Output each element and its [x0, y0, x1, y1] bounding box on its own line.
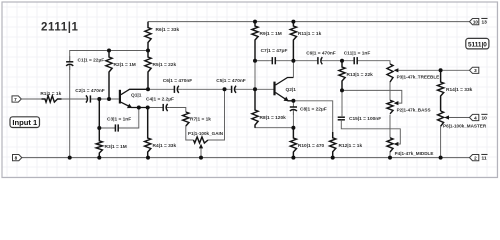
- wire bass wiper feed from R13 node: [342, 90, 402, 103]
- node interstage/R9 junction: [253, 87, 257, 91]
- svg-text:R1|1 = 1k: R1|1 = 1k: [40, 91, 61, 97]
- transistor Q2|1: [273, 82, 275, 96]
- wire top-left (C1 to R6 column): [70, 51, 148, 62]
- svg-text:P2|1-47k_BASS: P2|1-47k_BASS: [397, 108, 431, 113]
- potentiometer P6|1 100k MASTER: [438, 111, 444, 126]
- potentiometer P2|1 47k BASS: [387, 100, 393, 114]
- svg-text:C7|1 = 47pF: C7|1 = 47pF: [261, 48, 288, 54]
- connector tag 4 (master out): [470, 114, 479, 120]
- svg-text:2: 2: [474, 155, 477, 160]
- node ground/P1 wiper: [199, 156, 203, 160]
- wire P1 left terminal: [186, 126, 194, 140]
- svg-text:R4|1 = 33k: R4|1 = 33k: [153, 143, 177, 149]
- node input/R2 junction: [107, 97, 111, 101]
- resistor R10|1 470: [290, 128, 296, 158]
- svg-text:C2|1 = 470nF: C2|1 = 470nF: [75, 88, 105, 94]
- wire P1 right terminal to interstage node: [208, 89, 225, 140]
- resistor R11|1 1k: [290, 22, 296, 61]
- resistor R13|1 22k: [339, 61, 345, 91]
- node C3/R3 junction: [97, 126, 101, 130]
- capacitor C4|1 2.2uF: [160, 107, 170, 109]
- capacitor C11|1 1nF: [352, 60, 362, 62]
- svg-text:7: 7: [14, 97, 17, 102]
- wire master wiper to tag 4: [446, 117, 470, 119]
- wire treble wiper to tag 3: [399, 69, 470, 71]
- svg-text:C11|1 = 1nF: C11|1 = 1nF: [344, 51, 371, 57]
- capacitor C8|1 22uF (emitter bypass): [292, 103, 294, 115]
- wire Q1 emitter line: [132, 107, 161, 109]
- capacitor C2|1 470nF (input coupling): [84, 98, 99, 100]
- wire R8 bend to C8 column: [254, 89, 256, 110]
- svg-text:R11|1 = 1k: R11|1 = 1k: [298, 31, 322, 37]
- svg-text:R12|1 = 1k: R12|1 = 1k: [339, 143, 363, 149]
- node emitter/R4 junction: [146, 106, 150, 110]
- capacitor C15|1 100nF: [338, 116, 345, 118]
- capacitor C5|1 470nF: [228, 88, 241, 90]
- wire tone stack pot column: [389, 82, 391, 100]
- node treble wiper/R14: [439, 68, 443, 72]
- resistor R9|1 1M: [252, 22, 258, 61]
- svg-text:P6|1-100k_MASTER: P6|1-100k_MASTER: [443, 123, 487, 128]
- svg-text:5111|0: 5111|0: [468, 41, 487, 48]
- svg-text:R9|1 = 1M: R9|1 = 1M: [260, 31, 282, 37]
- wire R13/C15 column: [341, 61, 343, 67]
- node ground/C1: [68, 156, 72, 160]
- svg-text:4: 4: [474, 115, 477, 120]
- node ground/R4: [146, 156, 150, 160]
- potentiometer P1|1 100k GAIN: [194, 137, 209, 143]
- wire C8 column emitter to R10: [292, 101, 294, 104]
- svg-text:R13|1 = 22k: R13|1 = 22k: [347, 72, 374, 78]
- wire bottom ground rail: [22, 157, 470, 159]
- resistor R6|1 33k: [145, 22, 151, 51]
- node R13/bass wiper/C15: [340, 88, 344, 92]
- resistor R2|1 1M (bias): [106, 51, 112, 100]
- svg-text:R3|1 = 1M: R3|1 = 1M: [105, 144, 127, 150]
- node interstage/P1 junction: [223, 87, 227, 91]
- svg-text:8: 8: [15, 155, 18, 160]
- svg-text:13: 13: [482, 20, 488, 26]
- node ground/R3: [97, 156, 101, 160]
- svg-text:R2|1 = 1M: R2|1 = 1M: [114, 62, 136, 68]
- node ground/master column: [439, 156, 443, 160]
- svg-text:2111|1: 2111|1: [41, 22, 79, 34]
- resistor R4|1 33k (emitter): [145, 108, 151, 158]
- transistor Q1|1: [119, 90, 121, 104]
- svg-text:P4|1-47k_MIDDLE: P4|1-47k_MIDDLE: [395, 151, 434, 156]
- svg-text:C5|1 = 470nF: C5|1 = 470nF: [216, 78, 246, 84]
- potentiometer P4|1 47k MIDDLE: [387, 138, 393, 152]
- node topleft/R5R6 junction: [146, 49, 150, 53]
- svg-text:C8|1 = 22µF: C8|1 = 22µF: [300, 106, 327, 112]
- node collector/R5 junction: [146, 87, 150, 91]
- wire P1 wiper to ground: [200, 146, 202, 157]
- wire Q2 emitter to R12 column: [293, 101, 332, 138]
- svg-text:P3|1-47k_TREEBLE: P3|1-47k_TREEBLE: [397, 75, 440, 80]
- svg-text:11: 11: [482, 156, 487, 162]
- node ground/P4: [388, 156, 392, 160]
- svg-text:R14|1 = 33k: R14|1 = 33k: [446, 87, 473, 93]
- wire top rail: [148, 21, 470, 23]
- node 47pF line/R9 col: [253, 59, 257, 63]
- resistor R12|1 1k: [330, 132, 336, 158]
- svg-text:10: 10: [473, 19, 479, 24]
- capacitor C9|1 470nF: [315, 60, 325, 62]
- node input/R3 junction: [97, 97, 101, 101]
- svg-text:C9|1 = 470nF: C9|1 = 470nF: [306, 51, 336, 57]
- wire C15 top lead: [341, 90, 343, 113]
- svg-text:R8|1 = 120k: R8|1 = 120k: [260, 115, 287, 121]
- resistor R8|1 120k: [252, 89, 258, 127]
- resistor R3|1 1M: [96, 99, 102, 158]
- capacitor C6|1 470nF: [171, 88, 183, 90]
- wire C1/ground branch crossing input: [69, 66, 71, 158]
- Input 1 label box: [10, 117, 40, 128]
- 5111|0 label box: [466, 38, 489, 49]
- svg-text:C4|1 = 2.2µF: C4|1 = 2.2µF: [146, 96, 174, 102]
- node 47pF line/R13: [340, 59, 344, 63]
- wire C3 loop from emitter line: [121, 108, 139, 129]
- connector tag 2 (ground out): [470, 155, 479, 161]
- svg-text:P1|1-100k_GAIN: P1|1-100k_GAIN: [188, 131, 224, 136]
- node ground/R12: [331, 156, 335, 160]
- node ground/R10: [291, 156, 295, 160]
- capacitor C1|1 22uF: [69, 56, 71, 70]
- node topleft/R2 junction: [107, 49, 111, 53]
- node R8/C8 junction: [291, 126, 295, 130]
- svg-text:R6|1 = 33k: R6|1 = 33k: [156, 27, 180, 33]
- capacitor C3|1 1nF (feedback): [112, 127, 121, 129]
- svg-text:Q2|1: Q2|1: [286, 87, 297, 93]
- svg-text:R5|1 = 22k: R5|1 = 22k: [153, 62, 177, 68]
- svg-text:Input 1: Input 1: [12, 118, 38, 127]
- potentiometer P3|1 47k TREBLE: [387, 64, 393, 82]
- svg-text:10: 10: [482, 115, 488, 121]
- connector tag 3 (treble out): [470, 67, 479, 73]
- svg-text:C1|1 = 22µF: C1|1 = 22µF: [78, 58, 105, 64]
- wire Q2 collector column: [292, 22, 294, 26]
- node top rail R9: [253, 20, 257, 24]
- svg-text:C3|1 = 1nF: C3|1 = 1nF: [107, 116, 131, 122]
- node Q2 emitter junction: [291, 99, 295, 103]
- svg-text:C6|1 = 470nF: C6|1 = 470nF: [163, 78, 193, 84]
- connector tag 8 (input ground): [13, 155, 22, 161]
- capacitor C7|1 47pF: [269, 60, 280, 62]
- resistor R5|1 22k: [145, 51, 151, 90]
- wire input line from tag 7 to Q1 base: [21, 98, 41, 100]
- wire interstage line Q1 collector to Q2 base: [148, 88, 171, 90]
- svg-text:Q1|1: Q1|1: [131, 92, 142, 98]
- resistor R14|1 33k: [438, 70, 444, 111]
- wire 47pF/470nF line (Q2 base column to treble pot): [255, 60, 269, 62]
- node 47pF line/collector col: [291, 59, 295, 63]
- resistor R1|1 1k (input series): [42, 96, 62, 102]
- wire Q2 base column (R9 to base): [254, 22, 256, 26]
- svg-text:R7|1 = 1k: R7|1 = 1k: [190, 117, 211, 123]
- svg-text:3: 3: [474, 68, 477, 73]
- wire master volume column: [440, 70, 442, 82]
- svg-text:R10|1 = 470: R10|1 = 470: [298, 143, 325, 149]
- svg-text:C15|1 = 100nF: C15|1 = 100nF: [349, 116, 381, 122]
- wire C15 bottom to middle wiper: [341, 122, 400, 144]
- resistor R7|1 1k: [183, 112, 189, 126]
- connector tag 7 (input): [12, 96, 21, 102]
- node emitter/C3 junction: [137, 106, 141, 110]
- connector tag 10 (top rail, V+): [470, 19, 479, 25]
- node top rail R11: [291, 20, 295, 24]
- wire C3 to R3 column: [99, 127, 112, 129]
